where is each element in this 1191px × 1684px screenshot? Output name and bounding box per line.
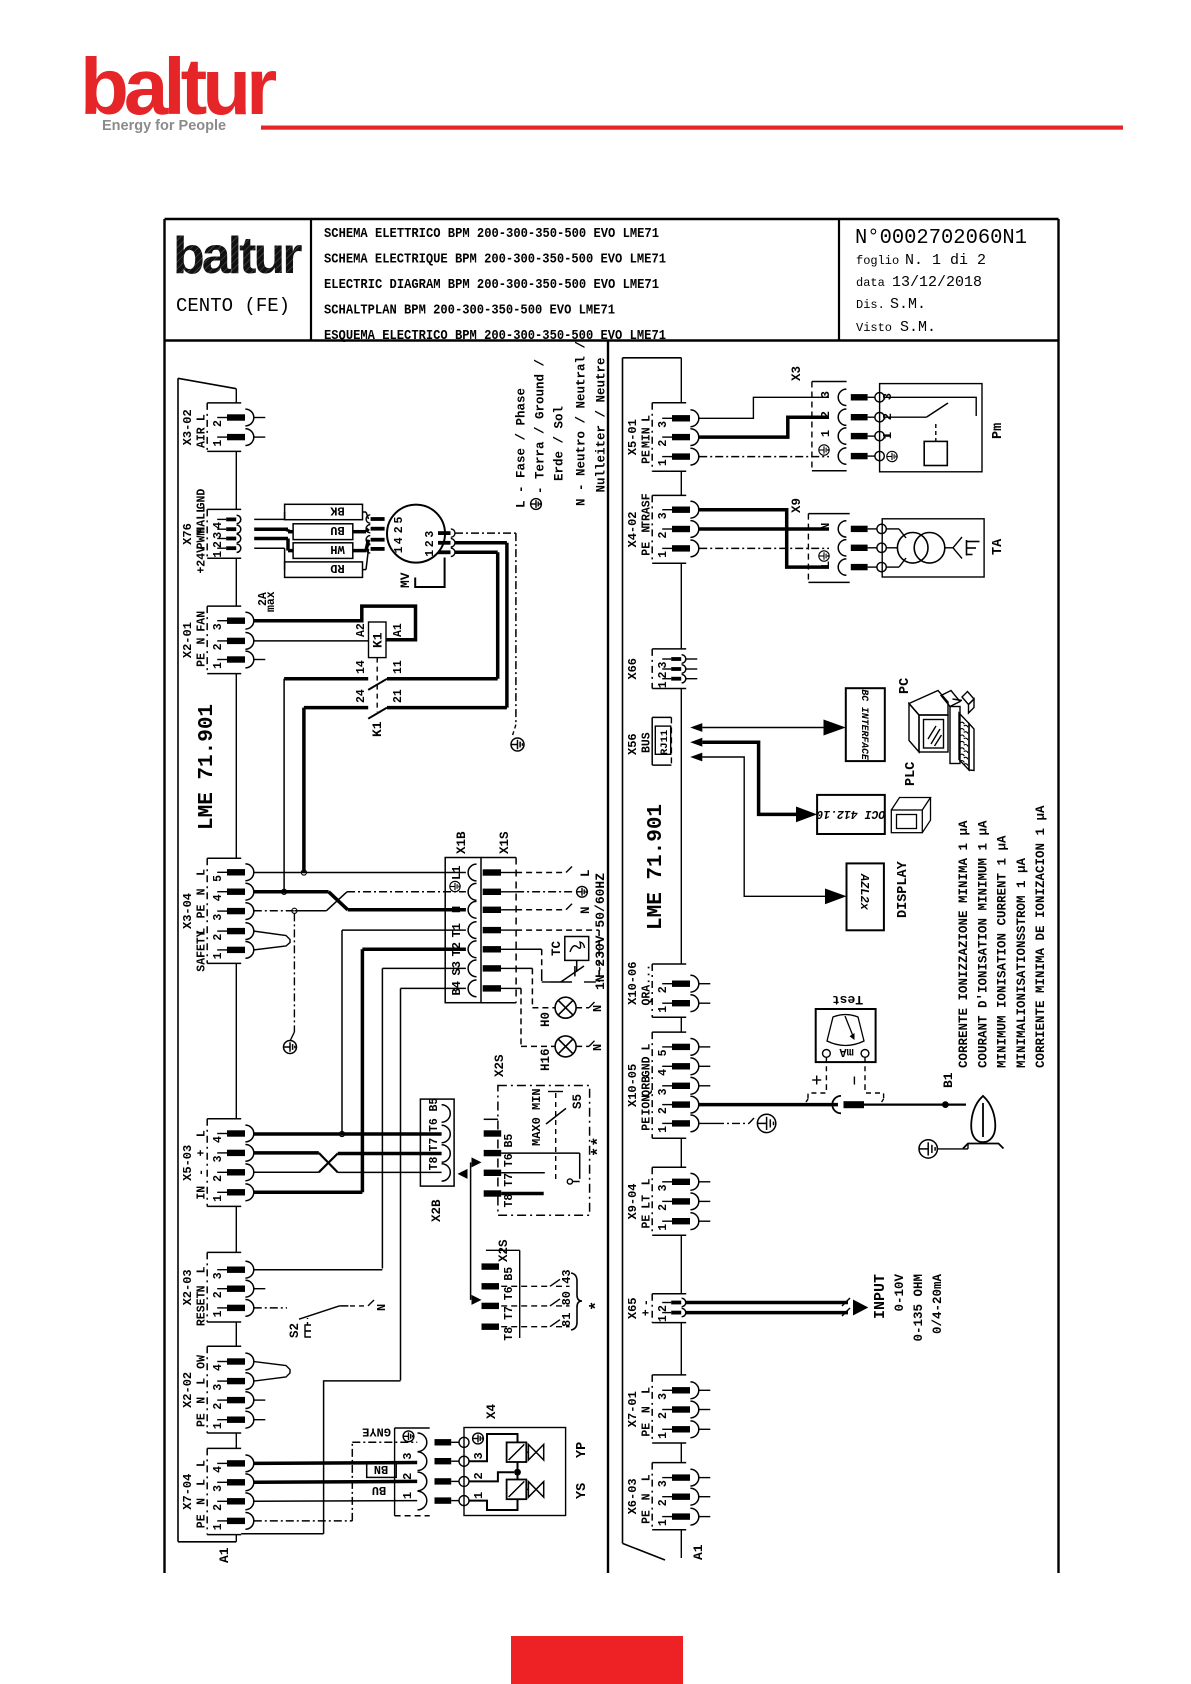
svg-text:T8: T8 bbox=[503, 1327, 516, 1341]
svg-text:2: 2 bbox=[657, 1499, 670, 1506]
svg-text:TRASF: TRASF bbox=[641, 493, 654, 528]
svg-text:4: 4 bbox=[212, 1466, 225, 1473]
svg-text:Test: Test bbox=[832, 992, 863, 1007]
svg-text:ESQUEMA ELECTRICO BPM 200-300-: ESQUEMA ELECTRICO BPM 200-300-350-500 EV… bbox=[324, 329, 666, 344]
svg-text:4: 4 bbox=[212, 894, 225, 901]
svg-text:X10-05: X10-05 bbox=[626, 1064, 640, 1107]
svg-text:L: L bbox=[196, 1266, 209, 1273]
svg-text:CENTO (FE): CENTO (FE) bbox=[176, 295, 290, 317]
svg-text:BN: BN bbox=[374, 1462, 388, 1476]
svg-text:2: 2 bbox=[393, 526, 406, 533]
svg-text:LME 71.901: LME 71.901 bbox=[645, 804, 668, 930]
svg-text:1: 1 bbox=[657, 1126, 670, 1133]
svg-text:X1B: X1B bbox=[455, 831, 469, 854]
svg-text:DISPLAY: DISPLAY bbox=[896, 860, 911, 918]
svg-text:1: 1 bbox=[424, 550, 437, 557]
svg-text:Erde / Sol: Erde / Sol bbox=[553, 406, 567, 481]
svg-text:N: N bbox=[591, 1044, 605, 1051]
svg-text:3: 3 bbox=[212, 1155, 225, 1162]
svg-text:L1: L1 bbox=[450, 866, 464, 880]
svg-text:X9: X9 bbox=[790, 498, 804, 513]
svg-text:T7: T7 bbox=[503, 1306, 516, 1320]
svg-text:N: N bbox=[196, 1498, 209, 1505]
svg-text:PE: PE bbox=[196, 1514, 209, 1528]
svg-text:S.M.: S.M. bbox=[890, 296, 926, 313]
svg-text:13/12/2018: 13/12/2018 bbox=[892, 274, 982, 291]
svg-text:A1: A1 bbox=[392, 623, 405, 637]
svg-text:A2: A2 bbox=[355, 623, 368, 637]
svg-text:foglio: foglio bbox=[856, 254, 899, 268]
svg-text:COURANT D'IONISATION MINIMUM 1: COURANT D'IONISATION MINIMUM 1 μA bbox=[976, 820, 990, 1068]
svg-text:3: 3 bbox=[657, 1088, 670, 1095]
svg-text:1: 1 bbox=[212, 440, 225, 447]
svg-text:SCHEMA ELECTRIQUE BPM 200-300-: SCHEMA ELECTRIQUE BPM 200-300-350-500 EV… bbox=[324, 253, 666, 268]
svg-text:2: 2 bbox=[819, 411, 833, 418]
svg-text:CORRIENTE MINIMA DE IONIZACION: CORRIENTE MINIMA DE IONIZACION 1 μA bbox=[1034, 805, 1048, 1068]
svg-text:ION: ION bbox=[641, 1095, 654, 1116]
svg-text:S.M.: S.M. bbox=[900, 319, 936, 336]
svg-text:3: 3 bbox=[657, 512, 670, 519]
svg-text:data: data bbox=[856, 276, 885, 290]
svg-text:-: - bbox=[196, 1169, 209, 1176]
svg-text:T7: T7 bbox=[503, 1173, 516, 1187]
svg-text:PE: PE bbox=[196, 653, 209, 667]
svg-text:4: 4 bbox=[393, 537, 406, 544]
svg-text:L: L bbox=[196, 869, 209, 876]
svg-text:X9-04: X9-04 bbox=[626, 1183, 640, 1219]
svg-text:4: 4 bbox=[212, 1364, 225, 1371]
svg-text:N: N bbox=[450, 906, 464, 913]
svg-text:AIR: AIR bbox=[196, 427, 209, 448]
svg-text:PE: PE bbox=[641, 1117, 654, 1131]
svg-text:L: L bbox=[196, 414, 209, 421]
svg-text:2: 2 bbox=[212, 1403, 225, 1410]
svg-text:max: max bbox=[265, 591, 278, 612]
svg-text:3: 3 bbox=[212, 1384, 225, 1391]
svg-text:X2-01: X2-01 bbox=[181, 622, 195, 658]
svg-text:FAN: FAN bbox=[196, 611, 209, 632]
svg-text:1: 1 bbox=[212, 551, 225, 558]
svg-text:T6: T6 bbox=[503, 1153, 516, 1167]
svg-text:2: 2 bbox=[212, 541, 225, 548]
svg-text:3: 3 bbox=[212, 914, 225, 921]
svg-text:1: 1 bbox=[401, 1492, 415, 1499]
svg-text:N: N bbox=[375, 1304, 389, 1311]
svg-text:T6: T6 bbox=[428, 1118, 441, 1132]
svg-text:2: 2 bbox=[212, 420, 225, 427]
svg-text:S5: S5 bbox=[571, 1094, 585, 1109]
svg-text:L: L bbox=[196, 1479, 209, 1486]
svg-text:1: 1 bbox=[657, 1315, 670, 1322]
svg-text:N. 1 di 2: N. 1 di 2 bbox=[905, 252, 986, 269]
svg-text:PE: PE bbox=[196, 904, 209, 918]
svg-text:5: 5 bbox=[212, 875, 225, 882]
svg-text:PE: PE bbox=[641, 1423, 654, 1437]
svg-text:2: 2 bbox=[657, 672, 670, 679]
svg-text:2: 2 bbox=[657, 1107, 670, 1114]
svg-text:MAX0 MIN: MAX0 MIN bbox=[530, 1088, 544, 1146]
svg-text:TC: TC bbox=[550, 940, 564, 956]
svg-text:QRB: QRB bbox=[641, 1076, 654, 1097]
svg-text:X2B: X2B bbox=[430, 1199, 444, 1222]
svg-text:0/4-20mA: 0/4-20mA bbox=[931, 1274, 945, 1335]
svg-text:3: 3 bbox=[212, 623, 225, 630]
svg-text:+24V: +24V bbox=[196, 546, 209, 574]
svg-text:T8: T8 bbox=[428, 1156, 441, 1170]
svg-text:PC: PC bbox=[898, 678, 913, 694]
svg-text:1N~230V 50/60HZ: 1N~230V 50/60HZ bbox=[593, 873, 608, 990]
svg-text:B5: B5 bbox=[428, 1098, 441, 1112]
svg-text:1: 1 bbox=[212, 1422, 225, 1429]
svg-text:N°0002702060N1: N°0002702060N1 bbox=[855, 227, 1027, 250]
svg-text:Dis.: Dis. bbox=[856, 298, 885, 312]
svg-text:L: L bbox=[196, 1130, 209, 1137]
svg-text:K1: K1 bbox=[371, 632, 386, 648]
svg-text:INPUT: INPUT bbox=[872, 1274, 889, 1319]
svg-text:N: N bbox=[196, 1285, 209, 1292]
svg-text:1: 1 bbox=[212, 1310, 225, 1317]
svg-text:1: 1 bbox=[212, 662, 225, 669]
svg-text:X5-01: X5-01 bbox=[626, 419, 640, 455]
svg-text:N - Neutro / Neutral /: N - Neutro / Neutral / bbox=[575, 341, 589, 506]
svg-text:X2S: X2S bbox=[497, 1239, 511, 1262]
svg-text:Pm: Pm bbox=[991, 423, 1006, 439]
svg-text:3: 3 bbox=[212, 1272, 225, 1279]
svg-text:2: 2 bbox=[401, 1473, 415, 1480]
svg-text:1: 1 bbox=[657, 1519, 670, 1526]
svg-text:PE: PE bbox=[641, 542, 654, 556]
svg-text:2: 2 bbox=[212, 1504, 225, 1511]
svg-text:1: 1 bbox=[657, 681, 670, 688]
svg-text:24: 24 bbox=[355, 689, 368, 703]
svg-text:1: 1 bbox=[657, 1224, 670, 1231]
svg-text:L: L bbox=[641, 1474, 654, 1481]
svg-text:4: 4 bbox=[212, 522, 225, 529]
svg-text:X2-02: X2-02 bbox=[181, 1372, 195, 1408]
svg-text:H16: H16 bbox=[539, 1048, 553, 1071]
svg-text:+: + bbox=[641, 1309, 654, 1316]
svg-text:X7-01: X7-01 bbox=[626, 1391, 640, 1427]
svg-text:L: L bbox=[579, 869, 593, 877]
svg-text:Visto: Visto bbox=[856, 321, 892, 335]
svg-text:**: ** bbox=[590, 1137, 609, 1157]
svg-text:1: 1 bbox=[657, 551, 670, 558]
svg-text:5: 5 bbox=[657, 1049, 670, 1056]
svg-text:OCI 412.10: OCI 412.10 bbox=[816, 807, 885, 820]
svg-text:2: 2 bbox=[424, 540, 437, 547]
svg-text:A1: A1 bbox=[691, 1544, 706, 1560]
svg-text:S2: S2 bbox=[288, 1323, 302, 1338]
svg-text:4: 4 bbox=[657, 1069, 670, 1076]
svg-text:2: 2 bbox=[657, 1412, 670, 1419]
svg-text:LME 71.901: LME 71.901 bbox=[196, 704, 219, 830]
svg-text:N: N bbox=[641, 526, 654, 533]
svg-text:3: 3 bbox=[657, 662, 670, 669]
svg-text:5: 5 bbox=[393, 517, 406, 524]
svg-text:X66: X66 bbox=[626, 658, 640, 680]
svg-text:N: N bbox=[196, 638, 209, 645]
svg-text:N: N bbox=[196, 888, 209, 895]
svg-text:4: 4 bbox=[212, 1136, 225, 1143]
svg-text:X6-03: X6-03 bbox=[626, 1478, 640, 1514]
svg-text:GND: GND bbox=[641, 1056, 654, 1077]
svg-text:YP: YP bbox=[575, 1442, 590, 1458]
svg-text:B1: B1 bbox=[941, 1072, 956, 1088]
svg-text:MINIMALIONISATIONSSTROM 1 μA: MINIMALIONISATIONSSTROM 1 μA bbox=[1015, 857, 1029, 1068]
svg-text:BK: BK bbox=[330, 504, 345, 518]
svg-text:X65: X65 bbox=[626, 1297, 640, 1319]
svg-text:X76: X76 bbox=[181, 523, 195, 545]
svg-text:N: N bbox=[196, 1397, 209, 1404]
svg-text:1: 1 bbox=[212, 1195, 225, 1202]
svg-text:L: L bbox=[641, 1044, 654, 1051]
svg-text:X3-04: X3-04 bbox=[181, 893, 195, 929]
svg-text:3: 3 bbox=[401, 1452, 415, 1459]
svg-text:3: 3 bbox=[212, 1485, 225, 1492]
svg-text:RJ11: RJ11 bbox=[659, 730, 671, 755]
svg-text:21: 21 bbox=[392, 689, 405, 703]
svg-text:1: 1 bbox=[212, 1523, 225, 1530]
svg-text:X3-02: X3-02 bbox=[181, 409, 195, 445]
svg-text:WH: WH bbox=[330, 542, 344, 556]
svg-text:*: * bbox=[588, 1301, 607, 1311]
svg-text:PE: PE bbox=[641, 450, 654, 464]
svg-text:YS: YS bbox=[575, 1483, 590, 1499]
svg-text:1: 1 bbox=[657, 1432, 670, 1439]
svg-text:MIN: MIN bbox=[641, 427, 654, 448]
svg-text:2: 2 bbox=[212, 1175, 225, 1182]
svg-text:N: N bbox=[641, 1493, 654, 1500]
svg-text:2: 2 bbox=[657, 1305, 670, 1312]
svg-text:L: L bbox=[819, 561, 833, 568]
svg-text:1: 1 bbox=[472, 1492, 486, 1499]
svg-text:IN: IN bbox=[196, 1186, 209, 1200]
svg-text:N: N bbox=[591, 1005, 605, 1012]
svg-text:BC INTERFACE: BC INTERFACE bbox=[859, 689, 870, 761]
svg-text:3: 3 bbox=[657, 1184, 670, 1191]
svg-text:X10-06: X10-06 bbox=[626, 962, 640, 1005]
svg-text:X1S: X1S bbox=[498, 831, 512, 854]
svg-text:X5-03: X5-03 bbox=[181, 1145, 195, 1181]
svg-text:L: L bbox=[196, 1378, 209, 1385]
svg-text:N: N bbox=[641, 1406, 654, 1413]
svg-text:BUS: BUS bbox=[641, 732, 654, 753]
svg-text:Energy for People: Energy for People bbox=[102, 118, 226, 134]
svg-text:BU: BU bbox=[330, 523, 344, 537]
svg-text:GNYE: GNYE bbox=[362, 1425, 391, 1439]
svg-text:- Terra / Ground /: - Terra / Ground / bbox=[534, 359, 548, 494]
svg-text:X4: X4 bbox=[485, 1403, 499, 1419]
svg-text:TA: TA bbox=[991, 538, 1006, 555]
svg-text:11: 11 bbox=[392, 660, 405, 674]
svg-text:baltur: baltur bbox=[173, 227, 302, 285]
svg-text:SCHEMA ELETTRICO BPM 200-300-3: SCHEMA ELETTRICO BPM 200-300-350-500 EVO… bbox=[324, 227, 659, 242]
svg-text:0-135 OHM: 0-135 OHM bbox=[912, 1274, 926, 1342]
svg-text:2: 2 bbox=[472, 1472, 486, 1479]
svg-text:L - Fase / Phase: L - Fase / Phase bbox=[515, 388, 529, 508]
svg-text:QRA...: QRA... bbox=[641, 964, 654, 1005]
svg-text:B5: B5 bbox=[503, 1267, 516, 1281]
svg-text:RESET: RESET bbox=[196, 1291, 209, 1326]
svg-text:LT: LT bbox=[641, 1195, 654, 1209]
svg-text:2: 2 bbox=[212, 934, 225, 941]
svg-text:L: L bbox=[641, 1387, 654, 1394]
svg-text:2: 2 bbox=[657, 440, 670, 447]
svg-text:PE: PE bbox=[196, 1413, 209, 1427]
svg-text:X3: X3 bbox=[790, 366, 804, 381]
svg-text:L: L bbox=[196, 1460, 209, 1467]
svg-text:AZL2x: AZL2x bbox=[857, 873, 871, 911]
svg-text:CORRENTE IONIZZAZIONE MINIMA 1: CORRENTE IONIZZAZIONE MINIMA 1 μA bbox=[957, 820, 971, 1068]
svg-text:ELECTRIC DIAGRAM BPM 200-300-3: ELECTRIC DIAGRAM BPM 200-300-350-500 EVO… bbox=[324, 278, 659, 293]
svg-text:1: 1 bbox=[819, 430, 833, 437]
svg-text:+: + bbox=[196, 1150, 209, 1157]
svg-text:T8: T8 bbox=[503, 1194, 516, 1208]
svg-text:3: 3 bbox=[819, 391, 833, 398]
svg-text:MINIMUM IONISATION CURRENT 1 μ: MINIMUM IONISATION CURRENT 1 μA bbox=[996, 835, 1010, 1068]
svg-text:T6: T6 bbox=[503, 1286, 516, 1300]
svg-text:N: N bbox=[579, 906, 593, 914]
svg-text:3: 3 bbox=[657, 421, 670, 428]
svg-text:L: L bbox=[641, 415, 654, 422]
svg-text:T7: T7 bbox=[428, 1138, 441, 1152]
svg-text:2: 2 bbox=[212, 643, 225, 650]
svg-text:PE: PE bbox=[641, 1215, 654, 1229]
svg-text:14: 14 bbox=[355, 660, 368, 674]
svg-text:2: 2 bbox=[657, 1204, 670, 1211]
svg-text:-: - bbox=[641, 1299, 654, 1306]
svg-text:2: 2 bbox=[657, 986, 670, 993]
svg-text:3: 3 bbox=[657, 1480, 670, 1487]
svg-text:K1: K1 bbox=[370, 721, 385, 737]
svg-text:3: 3 bbox=[424, 531, 437, 538]
svg-text:X4-02: X4-02 bbox=[626, 511, 640, 547]
svg-text:X2-03: X2-03 bbox=[181, 1269, 195, 1305]
svg-text:0-10V: 0-10V bbox=[893, 1274, 907, 1312]
svg-text:X2S: X2S bbox=[493, 1054, 507, 1077]
svg-text:3: 3 bbox=[472, 1452, 486, 1459]
svg-text:PLC: PLC bbox=[904, 762, 919, 786]
svg-text:81 80 43: 81 80 43 bbox=[560, 1269, 574, 1327]
svg-text:PE: PE bbox=[641, 1510, 654, 1524]
svg-text:SAFETY: SAFETY bbox=[196, 930, 209, 972]
svg-text:MV: MV bbox=[398, 572, 413, 588]
svg-text:BU: BU bbox=[372, 1483, 386, 1497]
svg-text:B5: B5 bbox=[503, 1134, 516, 1148]
svg-text:2: 2 bbox=[657, 532, 670, 539]
svg-text:1: 1 bbox=[212, 952, 225, 959]
svg-text:2: 2 bbox=[212, 1291, 225, 1298]
svg-text:3: 3 bbox=[212, 532, 225, 539]
svg-text:OW: OW bbox=[196, 1355, 209, 1369]
svg-text:Nulleiter / Neutre: Nulleiter / Neutre bbox=[595, 357, 609, 492]
svg-text:RD: RD bbox=[330, 561, 344, 575]
svg-text:X7-04: X7-04 bbox=[181, 1474, 195, 1510]
svg-text:mA: mA bbox=[839, 1045, 854, 1059]
svg-text:A1: A1 bbox=[217, 1547, 232, 1563]
svg-text:H0: H0 bbox=[539, 1012, 553, 1027]
svg-text:1: 1 bbox=[657, 459, 670, 466]
svg-text:1: 1 bbox=[657, 1006, 670, 1013]
svg-text:L: L bbox=[641, 1178, 654, 1185]
svg-text:X56: X56 bbox=[626, 733, 640, 755]
svg-text:SCHALTPLAN BPM 200-300-350-500: SCHALTPLAN BPM 200-300-350-500 EVO LME71 bbox=[324, 303, 615, 318]
svg-text:3: 3 bbox=[657, 1393, 670, 1400]
svg-text:N: N bbox=[819, 523, 833, 530]
